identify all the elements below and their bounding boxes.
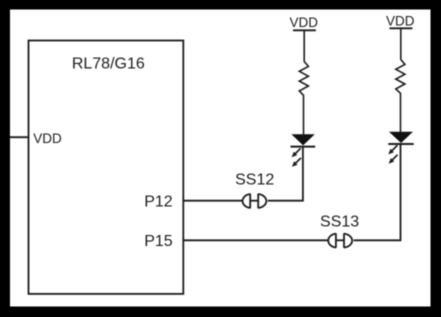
svg-text:P12: P12 [144,193,173,210]
svg-text:VDD: VDD [386,14,415,29]
svg-text:P15: P15 [144,233,173,250]
svg-text:RL78/G16: RL78/G16 [72,56,145,73]
svg-text:SS12: SS12 [235,172,274,189]
svg-text:SS13: SS13 [320,214,359,231]
svg-text:VDD: VDD [289,15,318,30]
svg-text:VDD: VDD [33,131,62,146]
